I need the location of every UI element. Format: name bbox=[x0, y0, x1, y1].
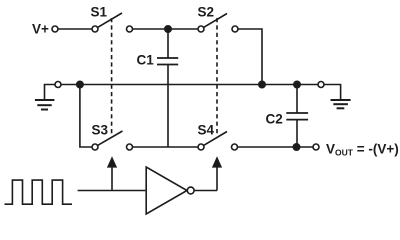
svg-text:V+: V+ bbox=[32, 22, 49, 37]
dashed control line S1-S3 bbox=[111, 18, 113, 136]
wire V+ to S1 bbox=[58, 28, 92, 30]
svg-text:S2: S2 bbox=[198, 5, 215, 20]
ground right symbol bbox=[324, 85, 350, 109]
switch S3 bbox=[92, 131, 133, 150]
wire S3 to S4 bbox=[133, 146, 198, 148]
node V+ input terminal bbox=[52, 26, 58, 32]
node junction left rail bbox=[77, 81, 83, 87]
node right ground terminal bbox=[318, 82, 324, 88]
clock square wave symbol bbox=[5, 180, 73, 204]
svg-text:S4: S4 bbox=[198, 123, 215, 138]
wire junction down to S3 bbox=[80, 85, 92, 148]
ground left symbol bbox=[35, 85, 55, 110]
svg-text:C2: C2 bbox=[266, 112, 283, 127]
wire S1 to S2 bbox=[133, 28, 198, 30]
node junction C2 bottom bbox=[293, 144, 299, 150]
switch S2 bbox=[198, 14, 238, 33]
capacitor C1 bbox=[157, 29, 178, 147]
arrow clock to S4 bbox=[212, 156, 222, 167]
wire clock input line bbox=[78, 190, 146, 192]
wire inverter output bbox=[194, 190, 217, 192]
svg-text:S3: S3 bbox=[92, 123, 109, 138]
wire S4 to output bbox=[238, 146, 313, 148]
node output terminal bbox=[313, 144, 319, 150]
wire riser to arrow S3 bbox=[111, 166, 113, 191]
node junction right rail S2 bbox=[259, 81, 265, 87]
op-amp inverter driver triangle bbox=[146, 167, 194, 214]
svg-text:VOUT = -(V+): VOUT = -(V+) bbox=[326, 142, 399, 158]
switch S4 bbox=[198, 132, 238, 151]
wire riser to arrow S4 bbox=[216, 166, 218, 191]
svg-text:C1: C1 bbox=[137, 52, 155, 67]
node left ground terminal bbox=[55, 82, 61, 88]
wire middle ground rail bbox=[61, 84, 318, 86]
capacitor C2 bbox=[286, 85, 308, 148]
node junction C2 top bbox=[294, 81, 300, 87]
dashed control line S2-S4 bbox=[216, 18, 218, 136]
svg-text:S1: S1 bbox=[91, 5, 108, 20]
arrow clock to S3 bbox=[107, 156, 117, 167]
node C1 top junction bbox=[165, 26, 171, 32]
wire S2 to right rail bbox=[238, 29, 262, 85]
switch S1 bbox=[92, 13, 133, 32]
